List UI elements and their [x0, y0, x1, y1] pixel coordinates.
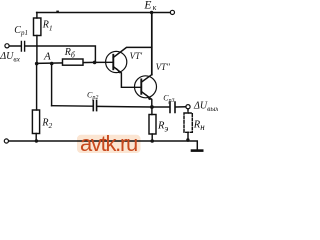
transistor VT2 collector — [141, 75, 152, 83]
transistor VT1 emitter — [113, 67, 141, 88]
wire R1 top lead — [36, 13, 38, 19]
svg-text:R2: R2 — [41, 117, 52, 130]
transistor VT2 base bar — [140, 79, 142, 93]
transistor VT2 emitter arrow — [146, 95, 151, 100]
svg-text:A: A — [43, 50, 51, 62]
wire emitter junction to Cp3 — [152, 106, 170, 108]
capacitor Cp1 — [9, 42, 24, 52]
svg-text:ΔUвх: ΔUвх — [0, 51, 21, 64]
wire collector vertical to rail — [151, 13, 153, 75]
svg-text:R1: R1 — [42, 20, 53, 33]
wire Rn bottom lead — [187, 132, 189, 141]
resistor Rn dashed load — [184, 113, 192, 132]
transistor VT1 circle — [106, 51, 127, 72]
resistor Rb — [63, 59, 84, 65]
wire Rz bottom lead — [151, 134, 153, 141]
wire input from Cp1 to base junction — [26, 46, 96, 62]
transistor VT2 circle — [135, 76, 157, 98]
transistor VT1 base bar — [112, 55, 114, 69]
resistor R2 — [32, 110, 39, 134]
wire Rz top lead — [151, 107, 153, 115]
svg-text:Rн: Rн — [193, 119, 205, 132]
junction Rz bottom — [150, 139, 154, 143]
junction Rn bottom — [186, 138, 189, 141]
wire base (node A to VT1 base) — [37, 62, 114, 63]
terminal output — [186, 105, 190, 109]
svg-text:Rэ: Rэ — [157, 121, 168, 134]
wire Rn top lead — [187, 109, 189, 113]
wire Cp3 to output terminal — [176, 106, 186, 108]
transistor VT1 collector — [113, 47, 152, 57]
svg-text:ΔUвых: ΔUвых — [193, 100, 218, 113]
ground — [192, 149, 202, 152]
transistor VT2 emitter — [141, 92, 152, 108]
wire bootstrap vertical — [51, 63, 53, 105]
resistor Rz (R emitter) — [149, 115, 156, 135]
speck on rail — [56, 11, 59, 13]
capacitor Cp3 — [170, 102, 175, 113]
junction input-base — [93, 61, 97, 65]
svg-text:VT′: VT′ — [130, 51, 144, 61]
wire bootstrap horizontal to Cp2 — [52, 105, 93, 108]
svg-text:Eк: Eк — [143, 0, 156, 12]
svg-text:VT″: VT″ — [156, 62, 171, 72]
junction node A — [35, 62, 39, 66]
junction bootstrap tap — [50, 62, 54, 66]
terminal bottom left — [4, 139, 8, 143]
wire R2 bottom lead — [35, 134, 37, 142]
svg-text:Cр2: Cр2 — [87, 90, 98, 101]
junction emitter out — [150, 105, 154, 109]
transistor VT1 emitter arrow — [117, 68, 122, 73]
junction Ek rail — [150, 11, 153, 14]
svg-text:Cр1: Cр1 — [14, 25, 28, 37]
svg-text:Rб: Rб — [64, 47, 76, 59]
watermark background — [77, 135, 141, 153]
svg-text:Cр3: Cр3 — [163, 93, 174, 104]
capacitor Cp2 — [93, 100, 96, 110]
watermark avtk.ru text — [80, 131, 150, 157]
wire R2 (node A down) — [36, 63, 38, 110]
resistor R1 — [34, 18, 41, 36]
wire top rail +Ek — [37, 12, 171, 14]
terminal input — [5, 44, 9, 48]
wire R1 bottom lead to node A — [36, 36, 38, 64]
junction R2 bottom — [35, 139, 38, 142]
wire Cp2 to emitter junction — [97, 105, 151, 108]
wire bottom rail — [9, 141, 198, 150]
terminal Ek — [170, 10, 174, 14]
